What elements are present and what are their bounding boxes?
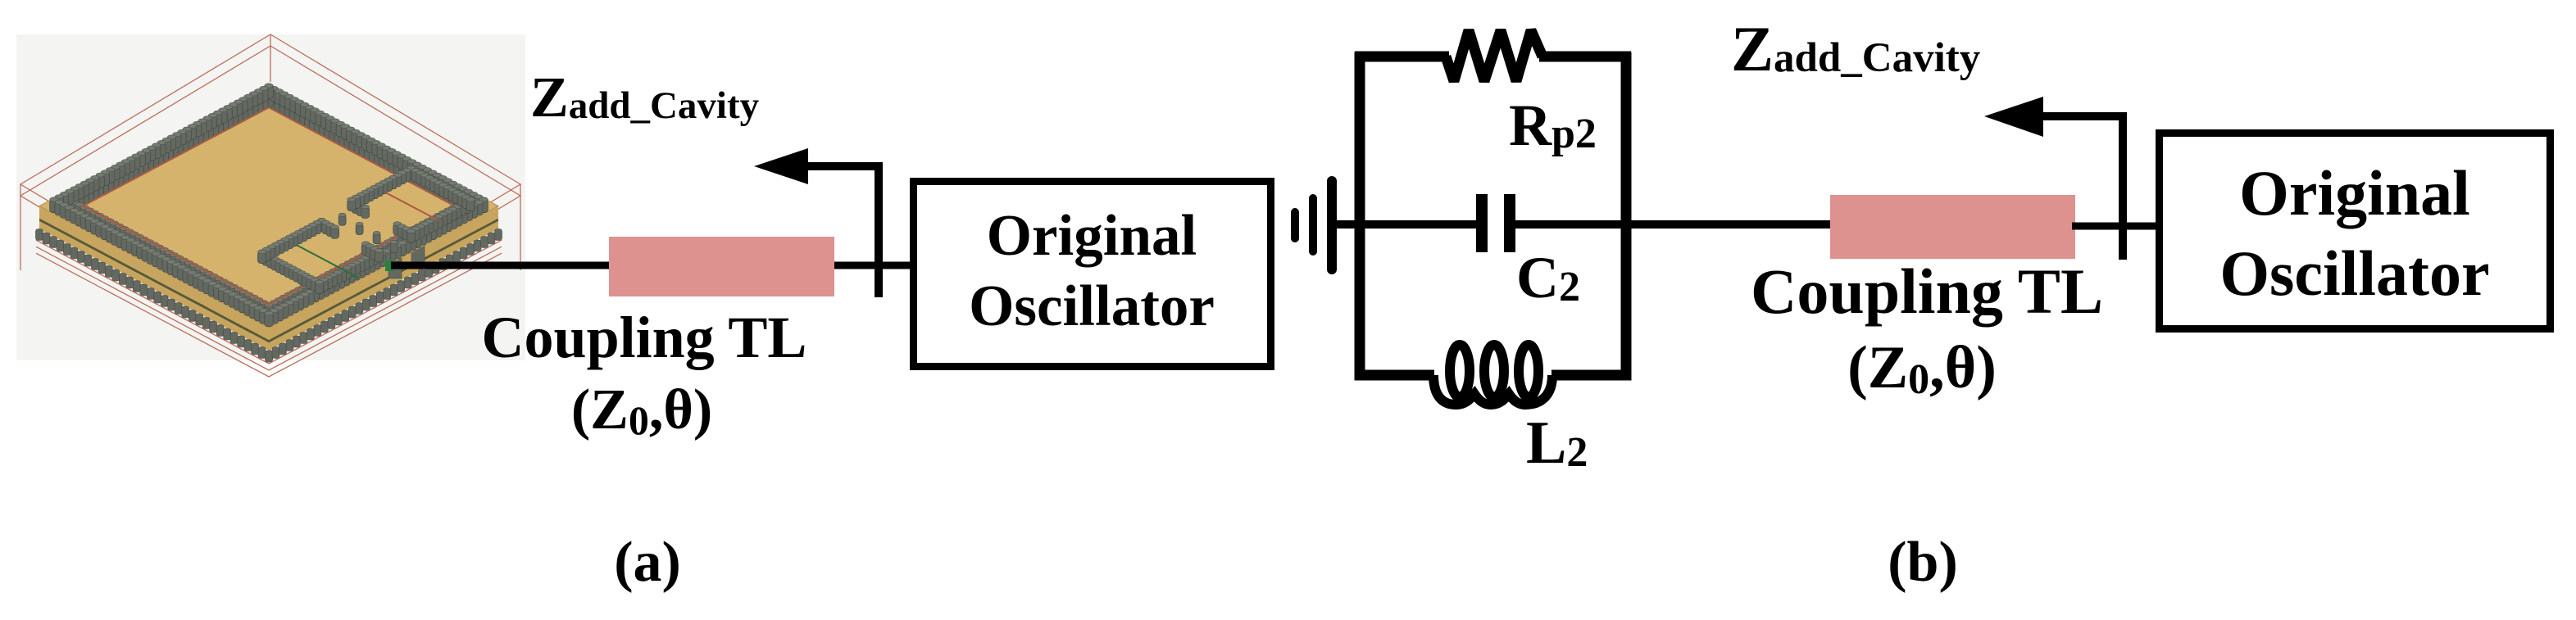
svg-text:Rp2: Rp2 <box>1509 93 1597 158</box>
feed point (green) <box>385 260 394 271</box>
resistor Rp2 <box>1446 30 1542 81</box>
via fence ring <box>50 84 488 327</box>
svg-text:(b): (b) <box>1888 531 1958 594</box>
svg-text:Oscillator: Oscillator <box>969 274 1215 338</box>
antenna 3D model background <box>16 34 525 360</box>
measurement tick and arrow Zadd (a) <box>754 148 879 297</box>
inductor L2 <box>1433 345 1552 405</box>
svg-text:Original: Original <box>2239 157 2470 229</box>
svg-text:L2: L2 <box>1526 410 1588 477</box>
via fence lower row <box>36 229 502 363</box>
wire: Coupling TL to oscillator (b) <box>2072 223 2159 230</box>
feed via columns <box>388 244 425 278</box>
wire: ground to tank <box>1332 220 1365 229</box>
wire: antenna feed to Coupling TL (a) <box>391 262 611 269</box>
slot lines <box>297 192 439 278</box>
svg-text:C2: C2 <box>1516 245 1580 310</box>
svg-text:Oscillator: Oscillator <box>2219 238 2489 309</box>
antenna substrate side faces / lower slab <box>39 206 498 351</box>
cavity outline (red) <box>83 107 455 305</box>
svg-text:Coupling TL: Coupling TL <box>1751 256 2103 327</box>
svg-text:Original: Original <box>987 204 1197 268</box>
Coupling TL microstrip (a) <box>609 237 834 296</box>
svg-text:(Z0,θ): (Z0,θ) <box>1847 334 1997 403</box>
svg-text:Zadd_Cavity: Zadd_Cavity <box>1731 13 1980 84</box>
lower wireframe lines <box>36 240 502 377</box>
svg-text:Zadd_Cavity: Zadd_Cavity <box>530 66 760 129</box>
CSRR via clusters <box>258 165 475 293</box>
antenna wireframe box (red) <box>20 34 520 361</box>
antenna substrate top face <box>39 84 498 328</box>
wire: tank middle left <box>1360 220 1478 229</box>
wire: Coupling TL to oscillator (a) <box>834 262 911 269</box>
ground symbol (rotated) <box>1291 176 1337 274</box>
svg-text:(Z0,θ): (Z0,θ) <box>571 378 712 443</box>
Coupling TL microstrip (b) <box>1830 195 2075 259</box>
wire: tank middle right to Coupling TL (b) <box>1514 220 1832 229</box>
original oscillator box (a) <box>914 182 1271 367</box>
svg-text:(a): (a) <box>614 531 681 594</box>
original oscillator box (b) <box>2160 134 2551 329</box>
capacitor C2 <box>1476 194 1515 252</box>
svg-text:Coupling TL: Coupling TL <box>482 305 807 370</box>
tank loop wires <box>1355 52 1631 381</box>
measurement tick and arrow Zadd (b) <box>1984 97 2123 260</box>
